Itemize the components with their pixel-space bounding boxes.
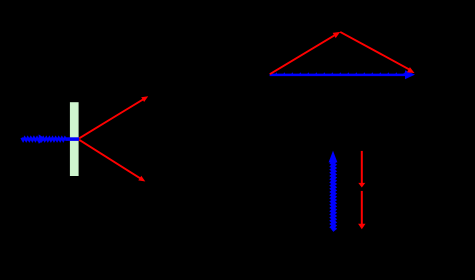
omega_idler arrowhead (358, 224, 365, 230)
omega_signal arrowhead (358, 183, 365, 188)
k_pump blue base arrow (270, 74, 406, 77)
omega_idler red arrow (361, 191, 363, 225)
signal ray arrowhead (141, 96, 148, 102)
pump beam straight segment through crystal (65, 137, 79, 141)
pump beam arrowhead (39, 134, 46, 143)
k_pump arrowhead (405, 70, 415, 79)
k_signal arrowhead (333, 32, 341, 38)
k_pump wavy spikes (275, 72, 405, 74)
omega_pump arrowhead (329, 151, 338, 163)
idler ray lower (79, 140, 142, 180)
idler ray arrowhead (138, 176, 145, 182)
pump beam zigzag (22, 138, 66, 141)
omega_pump blue vertical zigzag arrow (332, 159, 334, 231)
k_signal left side (270, 34, 336, 74)
nonlinear crystal (70, 102, 79, 176)
signal ray upper (79, 98, 145, 138)
k_idler right side (340, 32, 411, 70)
k_idler arrowhead (407, 67, 415, 73)
omega_signal red arrow (361, 151, 363, 183)
